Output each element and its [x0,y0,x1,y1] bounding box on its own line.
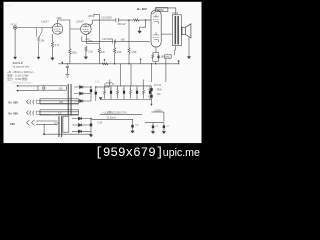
label 500k [41,40,46,42]
row A wires [40,101,79,104]
label 2.2k [88,51,93,54]
bank resistor 3 [117,86,119,99]
potentiometer VR1 [36,28,42,58]
svg-text:220k: 220k [57,17,63,20]
connector row C [10,122,15,126]
bank capacitor 8 [149,86,151,100]
label 5k [172,12,179,15]
svg-text:(0.2mA): (0.2mA) [107,116,116,119]
PT2 core bars [58,116,59,137]
label 22 [86,39,90,41]
wire rect out [91,118,133,120]
label B+ 300 [137,7,147,11]
svg-text:(160V): (160V) [155,110,162,113]
wire node to V2 grid [70,28,80,49]
hum pot VR2 [102,59,108,65]
cap C12 [90,119,92,135]
right psu text [148,85,162,98]
label 680 [118,24,127,26]
frame background [0,0,204,163]
wire link bottom [145,122,164,124]
svg-text:0.22 600V: 0.22 600V [102,38,113,41]
wire V1 plate to coupling node [58,20,70,28]
connector row B [9,111,19,115]
svg-text:100: 100 [59,101,64,104]
winding box rowB [40,110,79,115]
grid resistor R6 [114,41,116,63]
resistor R3 grid leak [69,49,71,64]
grid resistor R8 [128,20,130,64]
wire V2 plate up to line A [90,20,93,26]
svg-text:[959x679]: [959x679] [95,146,163,160]
diode D1 [74,86,91,89]
label 470k [116,51,122,54]
svg-text:100: 100 [59,87,64,90]
label 6.3V [54,123,59,125]
svg-text:(160V): (160V) [88,15,96,18]
label V2 [76,20,84,24]
svg-text:(100V): (100V) [50,114,57,116]
right cap C21 [151,93,153,101]
label 180R [161,57,166,59]
label INPUT [10,24,17,26]
L1 left tick [62,62,63,64]
diode D5 [72,124,91,127]
row B wires [40,112,79,115]
annotation text block [7,70,36,81]
diode D3 [74,100,91,103]
svg-text:470k: 470k [116,51,122,54]
PT1 core bars [68,84,69,116]
input jack J1 [13,26,17,30]
svg-text:12AX7: 12AX7 [76,20,84,24]
label 47k [101,51,106,54]
wire jack ground down [14,29,16,57]
ground screen cap [138,31,142,33]
label 250k [72,52,78,55]
winding box rowA [40,99,79,104]
bank resistor 7 [143,86,145,99]
label 1.5k [88,40,93,43]
wire down right [163,112,165,122]
ground VR1 [37,57,40,59]
heater line 2 [17,90,19,92]
bottom cap C14 [152,123,154,132]
ground C15 [162,131,166,133]
wire OPT bottom NFB [175,46,176,55]
svg-text:ハム調整のため (17V): ハム調整のため (17V) [102,110,127,114]
label +160V [88,15,96,18]
bank resistor 1 [104,86,106,99]
label 0.22 600V [101,16,112,19]
speaker SP1 [182,27,186,34]
wire risers below L1 [120,64,131,86]
label 220k [57,17,63,20]
svg-text:12AX7: 12AX7 [41,19,49,23]
svg-text:B+ 300: B+ 300 [9,100,19,104]
label 12AX7 [41,19,49,23]
cathode resistor R2 [51,34,53,58]
wire secondary to speaker [180,27,183,34]
ground speaker [187,57,190,59]
svg-text:5,000: 5,000 [172,12,179,15]
filter bank bottom rail [101,99,152,101]
svg-text:1k: 1k [116,88,118,90]
PT2 box [63,116,69,132]
label 0.22 600V b [102,38,113,41]
coupling cap C1 [116,18,118,22]
wire screen node [140,20,146,31]
label 100V text [50,114,57,116]
ground V1 cathode [51,58,55,60]
svg-text:47: 47 [123,88,125,90]
svg-text:450V: 450V [157,90,163,92]
heater line 1 [17,85,19,87]
psu note text [102,110,127,119]
arrow down [151,101,153,105]
NFB arrow [178,60,180,64]
underline [100,114,142,116]
OPT output transformer T2 [172,15,181,46]
svg-text:失真·· 0.1% 2.8W··: 失真·· 0.1% 2.8W·· [7,73,30,77]
svg-text:1k: 1k [129,88,131,90]
ground C12 [89,135,93,137]
svg-text:+B···250V(+) 300V(+)···: +B···250V(+) 300V(+)··· [7,70,36,74]
label tube name callout [156,8,168,12]
label 680 b [121,39,126,41]
svg-text:0.39: 0.39 [98,123,103,125]
svg-text:47: 47 [136,88,138,90]
ground V2 cathode [84,57,88,59]
svg-text:6BM8: 6BM8 [157,9,164,12]
bank resistor 5 [130,86,132,99]
long bus L1 [58,63,179,65]
triode V1 12AX7 [52,24,63,35]
ground drop row C [43,124,45,134]
svg-text:47: 47 [110,88,112,90]
diode D2 [74,92,91,95]
decoupling cap C3 [66,64,69,75]
svg-text:680 1W: 680 1W [118,24,127,26]
bank capacitor 2 [110,86,112,100]
ground C13 [131,131,135,133]
wire V2 cathode down [87,35,100,44]
svg-text:INPUT: INPUT [10,24,17,26]
triode V2 12AX7 [81,24,92,35]
svg-text:upic.me: upic.me [163,147,200,159]
svg-text:2.2k: 2.2k [88,51,93,54]
resistor R5 dropper [98,14,100,63]
bank capacitor 4 [123,86,125,100]
row C wires [36,121,58,124]
V3 upper triode internals [153,14,159,24]
svg-text:1k: 1k [142,88,144,90]
bottom cap C15 [163,123,165,132]
svg-text:100: 100 [10,122,15,126]
wire NFB verticals [152,58,166,82]
cap C11 [95,87,97,101]
cathode resistor R4 [85,46,87,57]
svg-text:2.7k: 2.7k [55,44,60,47]
scan page [4,2,202,143]
output tube V3 envelope [151,10,161,47]
junction [90,86,91,87]
svg-text:(22): (22) [86,39,90,41]
diode D4 [72,117,91,120]
wire input to V1 grid [17,27,52,29]
wire V3 side to OPT [161,33,172,35]
cap C10 [90,87,92,101]
wire speaker ground [188,37,190,56]
filter bank top rail [104,85,152,87]
svg-text:no.1: no.1 [5,4,12,8]
signal line B cathode [82,40,150,42]
wire cathode to line B [81,37,83,42]
svg-text:250k: 250k [72,52,78,55]
cathode network V3 [152,47,159,64]
label 2.7k [55,44,60,47]
diode D6 [72,130,91,133]
ground jack [14,57,17,59]
resistor R7 to B+ [133,19,151,21]
fuse F1 [104,82,114,84]
bank capacitor 6 [136,86,138,100]
title text [13,61,31,68]
svg-text:B+ 300: B+ 300 [137,7,147,11]
bottom cap C13 [132,119,134,130]
svg-text:by vacuum tube: by vacuum tube [13,65,31,68]
V3 lower triode internals [153,32,159,42]
ground small [99,98,102,100]
NFB label box [165,55,172,58]
ground C3 [65,74,69,77]
connector row A [9,100,19,104]
pencil note top-left [5,4,12,8]
right cap C20 [151,87,153,94]
wire 160V link [152,111,164,113]
B+ stub line [93,13,99,15]
svg-text:0.22 600V: 0.22 600V [101,16,112,19]
heater label text [12,82,31,85]
svg-text:6.3V heater wiring: 6.3V heater wiring [12,82,31,85]
caption bar [0,143,204,163]
svg-text:6.3V: 6.3V [95,82,100,84]
label 470k b [131,51,137,54]
stub node [140,59,142,64]
wire plate to OPT [156,8,176,15]
svg-text:6.3V: 6.3V [54,123,59,125]
svg-text:470k: 470k [131,51,137,54]
ground bus [44,133,91,135]
svg-text:出力·· 3.5W 雑音··: 出力·· 3.5W 雑音·· [7,77,29,81]
svg-text:B+ 300: B+ 300 [9,111,19,115]
signal line A plate [93,19,134,21]
bank labels [103,88,151,90]
junction dots L1 [67,63,68,64]
coupling cap C2 [113,39,115,43]
ground C14 [151,131,155,133]
wire risers above bank [110,80,143,86]
svg-text:1k: 1k [103,88,105,90]
winding box 100V [38,86,66,90]
